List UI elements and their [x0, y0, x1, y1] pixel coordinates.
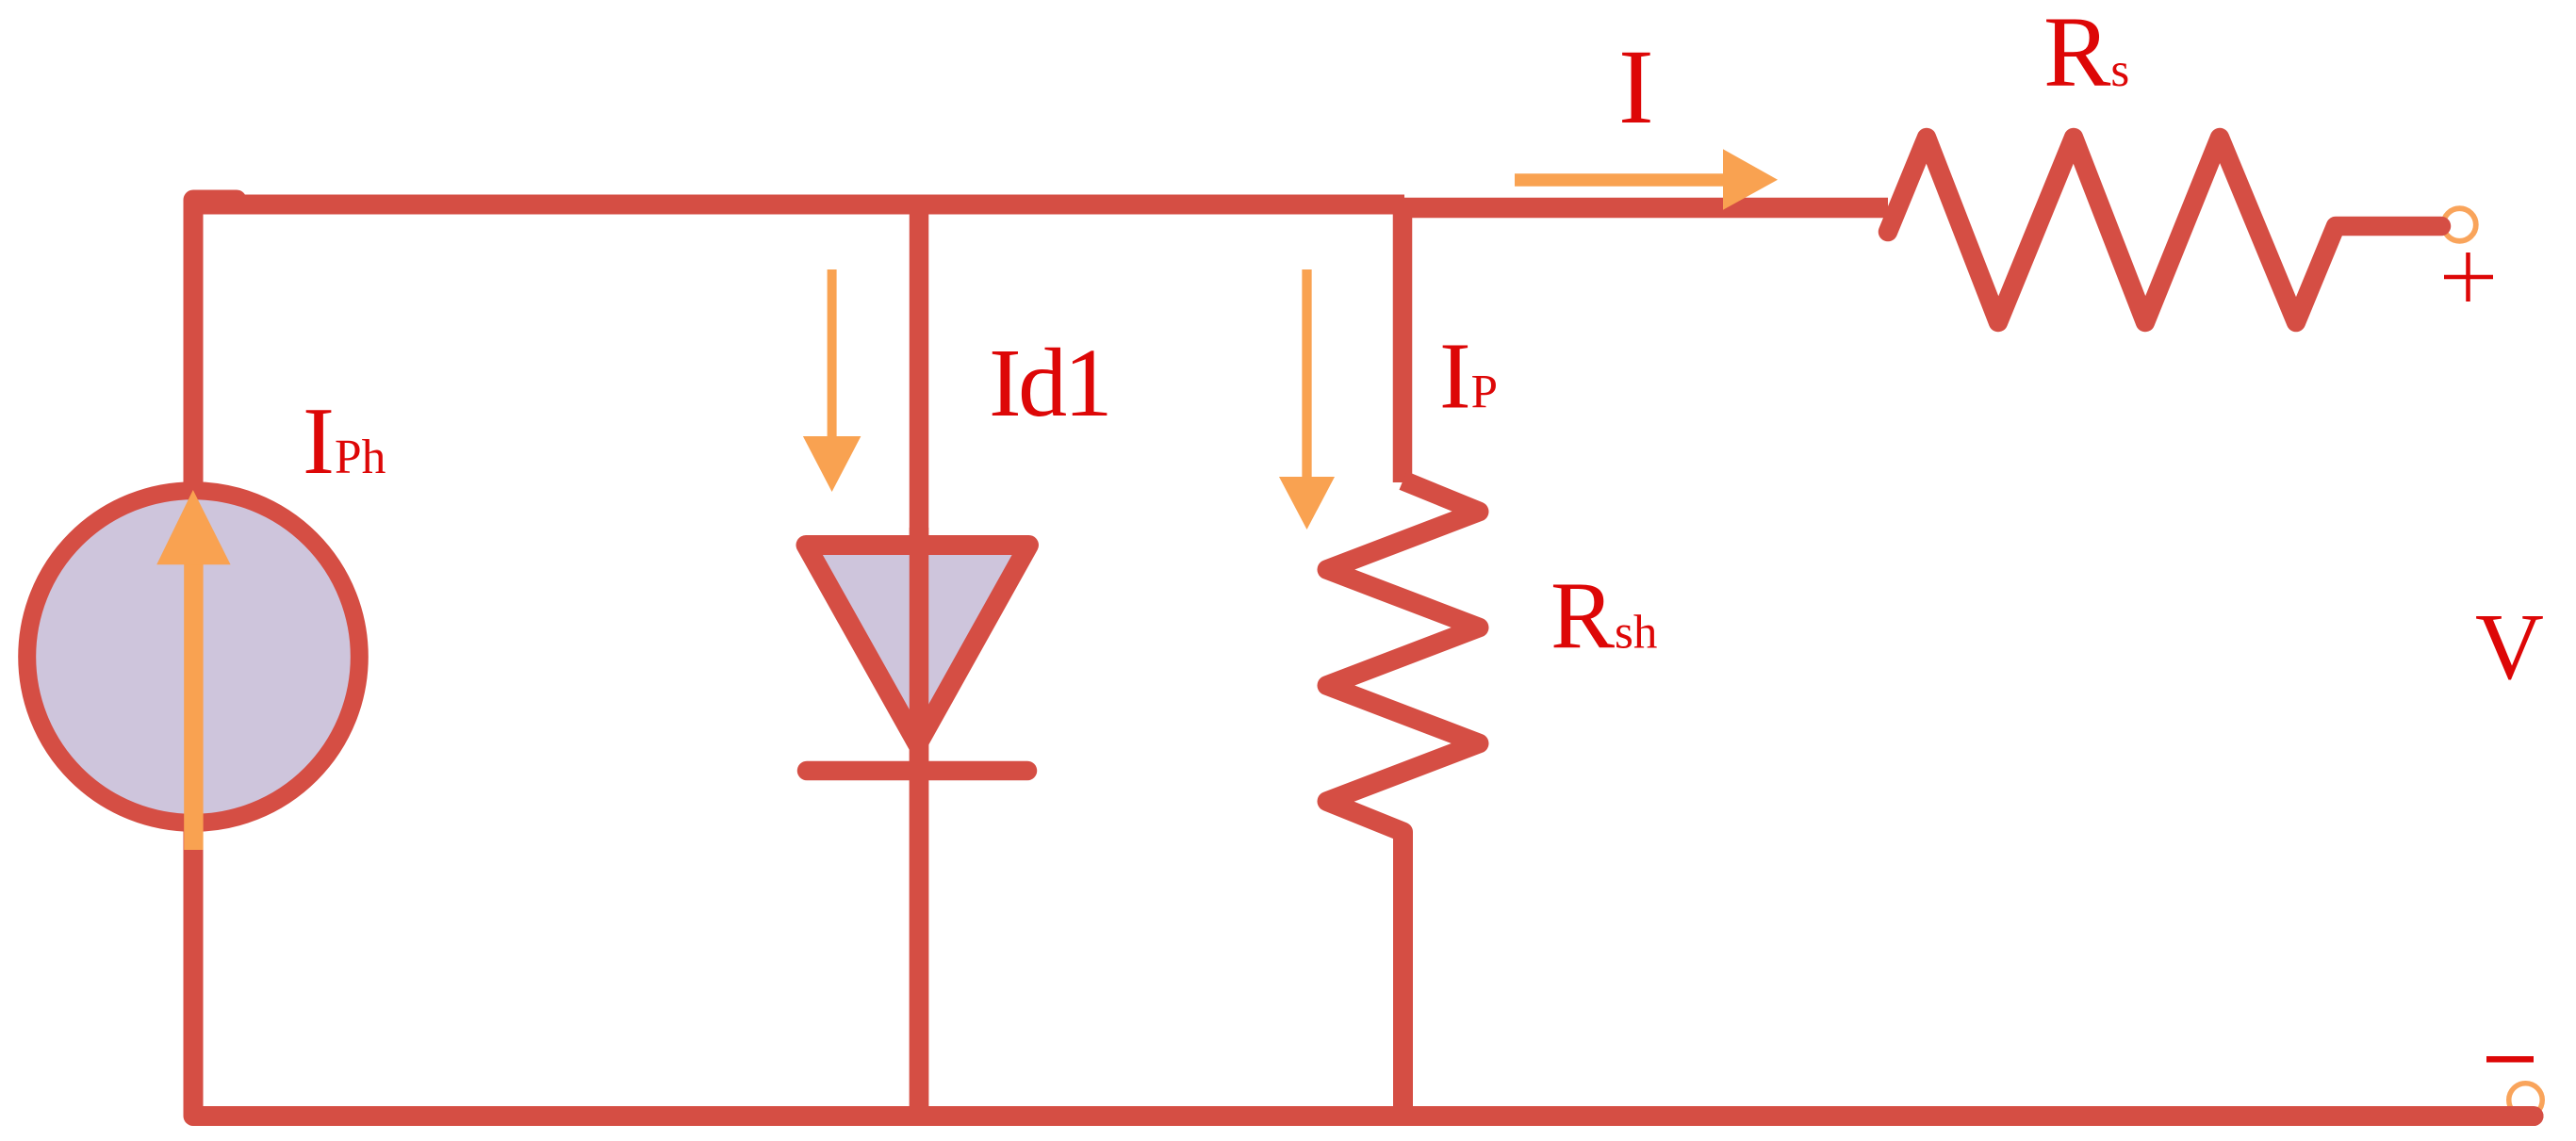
terminal node + (open circle, top right) — [2443, 208, 2476, 241]
current arrow Id1 (orange, down) — [828, 269, 837, 438]
svg-text:V: V — [2475, 594, 2544, 699]
current source IPh circle — [27, 491, 360, 823]
wire: shunt branch vertical (top) — [1393, 205, 1413, 482]
terminal node - (open circle, bottom right) — [2509, 1084, 2543, 1117]
resistor Rsh zigzag — [1327, 481, 1479, 1116]
wire: diode branch vertical — [910, 205, 929, 1116]
current arrow I (orange, right) — [1515, 173, 1725, 187]
svg-text:I: I — [1618, 28, 1654, 146]
wire: outer loop (left vertical + bottom wire + top-left corner bump) — [193, 200, 2534, 1117]
current source arrow (orange, up) — [184, 562, 203, 850]
wire: diode branch redrawn over triangle fill — [910, 528, 929, 1116]
current arrow IP (orange, down) — [1302, 269, 1311, 479]
diode cathode bar — [807, 761, 1027, 781]
wire: top horizontal — [193, 195, 1404, 215]
svg-text:Rsh: Rsh — [1551, 563, 1657, 670]
svg-text:Id1: Id1 — [989, 329, 1109, 437]
plus sign at + terminal — [2444, 253, 2493, 302]
wire: bottom-right end over terminal ring — [2356, 1106, 2534, 1126]
svg-text:IPh: IPh — [303, 388, 386, 495]
svg-text:IP: IP — [1439, 323, 1498, 429]
diode D1 triangle — [806, 546, 1029, 745]
resistor Rs zigzag with output stub — [1888, 138, 2441, 322]
minus sign at - terminal — [2486, 1056, 2534, 1063]
svg-text:Rs: Rs — [2043, 0, 2129, 108]
